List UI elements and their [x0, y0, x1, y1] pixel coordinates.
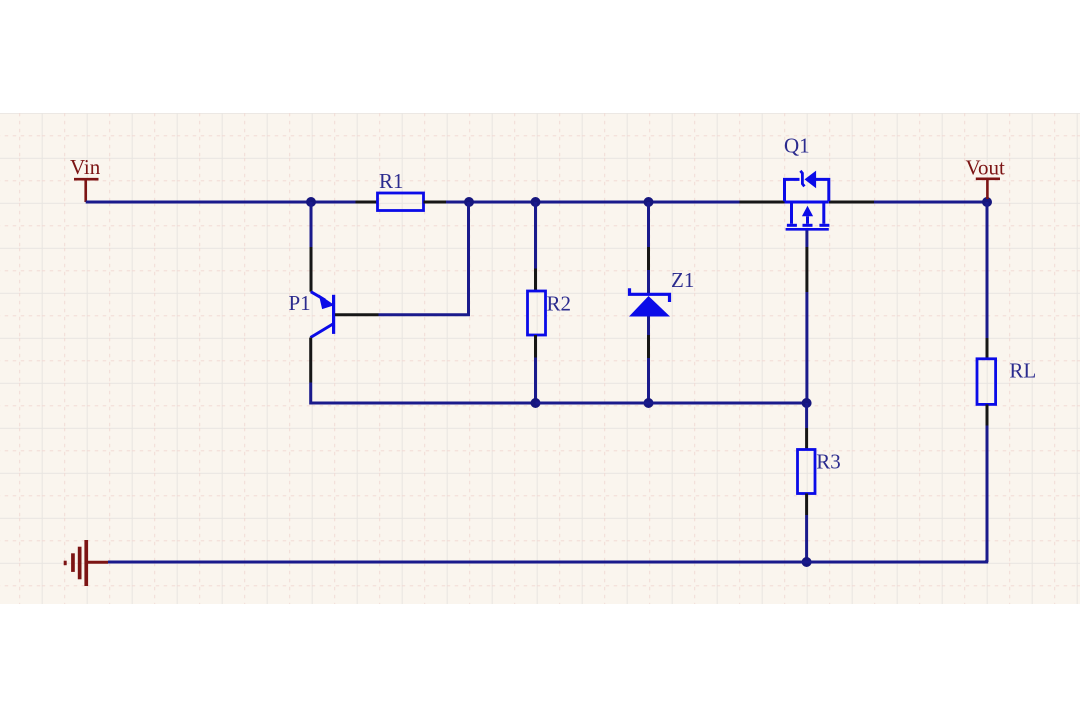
pin P1.E [310, 247, 313, 292]
pin P1.B [335, 313, 379, 316]
wire node D to Z1 [647, 202, 650, 247]
svg-text:R3: R3 [816, 450, 841, 474]
pin R2.2 [534, 335, 537, 358]
resistor R1 [378, 169, 424, 211]
pin R3.1 [805, 428, 808, 450]
wire Vout node to RL [986, 202, 989, 338]
wire Z1 anode [647, 317, 650, 336]
wire P1 collector to middle rail [311, 383, 536, 404]
wire P1 base to node B [379, 202, 469, 315]
pin R2.1 [534, 269, 537, 292]
pin R3.2 [805, 494, 808, 516]
svg-text:Z1: Z1 [671, 268, 694, 292]
svg-text:RL: RL [1009, 359, 1036, 383]
ground [64, 540, 108, 586]
pin Z1.K [647, 247, 650, 270]
pin R1.2 [424, 201, 447, 204]
pin Q1.S [740, 201, 785, 204]
pin P1.C [309, 338, 312, 383]
svg-text:Vout: Vout [966, 155, 1005, 179]
wire node A to R1 pin [311, 201, 356, 204]
wire ground rail [108, 560, 987, 562]
wire Q1 to Vout node [874, 201, 987, 204]
resistor R2 [528, 291, 572, 335]
schematic sheet [0, 113, 1080, 604]
pin RL.2 [986, 404, 989, 425]
pin RL.1 [986, 338, 989, 359]
junction node H [802, 557, 812, 567]
junction node F [644, 398, 654, 408]
wire node G to R3 [805, 403, 808, 428]
wire node A to P1 emitter [310, 202, 313, 247]
wire node B to node C to node D [469, 201, 740, 204]
pin Z1.A [647, 335, 650, 358]
svg-text:R2: R2 [547, 291, 572, 315]
port Vout [966, 155, 1005, 199]
port Vin [70, 155, 101, 202]
svg-text:P1: P1 [289, 291, 311, 315]
wire Z1 to middle rail [647, 358, 650, 403]
wire Vin to node A [86, 201, 311, 204]
svg-text:R1: R1 [379, 169, 404, 193]
mosfet Q1 [784, 134, 829, 230]
junction node G [802, 398, 812, 408]
pin Q1.D [829, 201, 874, 204]
junction node Vout [982, 197, 992, 207]
junction node C [531, 197, 541, 207]
wire middle rail [536, 402, 807, 405]
resistor RL [977, 359, 1036, 405]
junction node D [644, 197, 654, 207]
wire Q1 gate [805, 231, 808, 248]
junction node B [464, 197, 474, 207]
wire R3 to ground rail [805, 515, 808, 562]
wire R1 to node B [446, 201, 469, 204]
transistor P1 [289, 291, 334, 337]
wire Q1 gate to node G [805, 292, 808, 403]
wire Z1 cathode [647, 270, 650, 293]
junction node E [531, 398, 541, 408]
wire R2 to middle rail [534, 358, 537, 404]
svg-text:Q1: Q1 [784, 134, 810, 158]
pin R1.1 [356, 201, 378, 204]
pin Q1.G [805, 247, 808, 292]
junction node A [306, 197, 316, 207]
resistor R3 [798, 450, 841, 494]
wire RL to ground rail [986, 426, 989, 563]
zener diode Z1 [629, 268, 694, 317]
svg-text:Vin: Vin [70, 155, 101, 179]
wire node C to R2 [534, 202, 537, 269]
